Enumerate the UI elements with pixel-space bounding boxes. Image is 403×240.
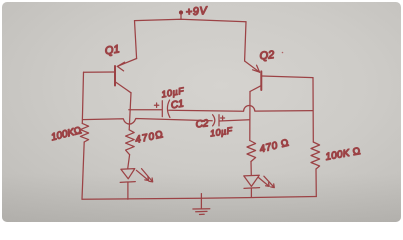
svg-text:C2: C2	[195, 118, 209, 130]
wire cross-coupling C2: Q1 base to Q2 collector (with under-hop)	[83, 119, 213, 125]
label 100K Ω right	[325, 146, 362, 163]
capacitor C1	[154, 100, 170, 117]
svg-text:C1: C1	[170, 98, 185, 111]
wire bottom ground rail	[82, 197, 316, 200]
resistor 100k right	[311, 142, 320, 169]
label 100KΩ left	[50, 125, 83, 143]
label 470 Ω right	[259, 137, 291, 155]
wire Q1 base node down to 100k	[82, 72, 83, 123]
label 10uF of C1	[161, 86, 185, 100]
wire left drop from rail to Q1 emitter	[135, 21, 137, 59]
LED D2	[244, 175, 260, 196]
transistor Q2	[245, 61, 313, 92]
wire top +9V rail	[135, 19, 247, 22]
resistor 470 left	[126, 130, 135, 155]
LED D1 light arrows	[136, 169, 152, 182]
resistor 470 right	[247, 141, 256, 162]
wire Q2 collector down to 470 right	[249, 92, 251, 141]
label C1	[170, 98, 185, 111]
label C2	[195, 118, 209, 130]
LED D2 light arrows	[259, 176, 275, 187]
label 470Ω left	[134, 129, 165, 146]
label Q1	[104, 43, 120, 57]
wire 470 left to LED1	[128, 155, 130, 169]
label Q2	[259, 49, 283, 62]
wire 100k right to bottom rail	[315, 169, 317, 197]
svg-text:Q2: Q2	[259, 49, 275, 62]
wire right drop from rail to Q2 emitter	[245, 22, 246, 61]
wire Q2 base right to 100k right	[312, 78, 314, 142]
transistor Q1	[84, 59, 137, 93]
LED D1	[120, 169, 135, 200]
capacitor C2	[213, 115, 250, 126]
label 10uF of C2	[209, 125, 233, 138]
wire Q1 collector down to 470 left	[129, 93, 131, 130]
ground symbol	[193, 194, 210, 215]
wire 470 right to LED2	[250, 162, 252, 176]
wire 100k left to bottom rail	[82, 142, 84, 199]
power +9V node	[179, 10, 183, 19]
svg-text:+9V: +9V	[185, 5, 209, 19]
label +9V	[185, 5, 209, 19]
resistor 100k left	[80, 123, 88, 142]
wire cross-coupling C1: Q1 collector to Q2 base (with hop over Q2 collector)	[129, 106, 313, 112]
svg-text:Q1: Q1	[104, 43, 120, 57]
